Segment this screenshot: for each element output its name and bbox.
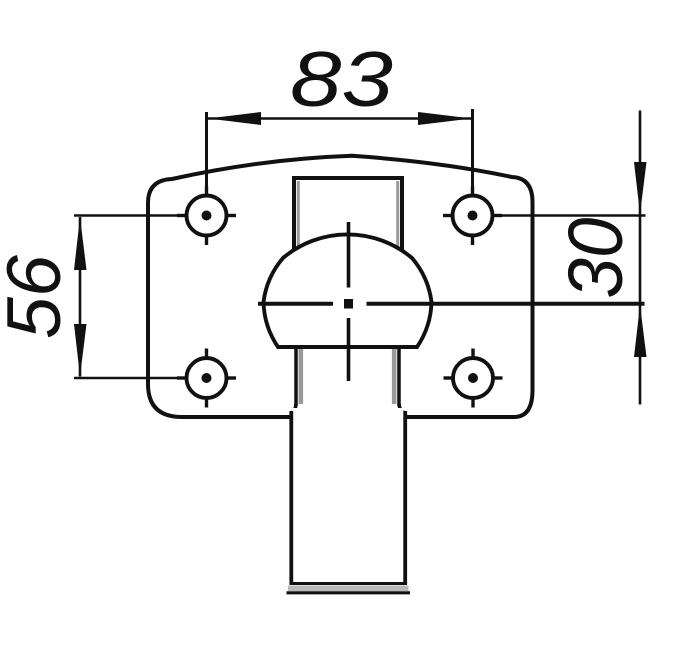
dimension 56 extension line top — [74, 214, 187, 217]
dimension 83 extension line left — [205, 112, 208, 196]
neck flare left — [292, 404, 297, 413]
svg-text:30: 30 — [553, 217, 639, 298]
mounting plate outline — [148, 156, 533, 417]
dimension 56 arrow up — [74, 217, 87, 270]
neck chamfer gray line right — [392, 349, 397, 404]
dimension 30 arrow down — [634, 162, 647, 214]
dimension 30 dimension line vertical — [639, 111, 642, 405]
dimension 30 arrow up — [634, 305, 647, 357]
shank lower left edge — [289, 411, 293, 584]
dimension 56 extension line bottom — [74, 377, 187, 380]
neck chamfer gray line left — [298, 349, 303, 404]
square shank upper part above ball — [294, 178, 402, 258]
dimension 30 extension line top — [493, 214, 646, 217]
shank lower part below plate — [292, 408, 404, 584]
shank upper chamfer line right — [396, 181, 399, 252]
dimension 83 arrow right — [418, 112, 472, 125]
dimension 83 dimension line — [208, 117, 471, 120]
shank bottom outer line — [287, 591, 411, 594]
svg-text:83: 83 — [290, 35, 393, 123]
ball centerline horizontal right segment (extends as 30 extension) — [367, 302, 645, 306]
bolt hole bottom-left — [177, 349, 236, 408]
ball centerline vertical upper segment — [347, 222, 351, 288]
bolt hole bottom-right — [444, 349, 503, 408]
shank bottom inner line — [290, 582, 408, 585]
bolt hole top-right — [443, 186, 502, 245]
shank upper chamfer line left — [297, 181, 300, 252]
svg-text:56: 56 — [0, 254, 77, 339]
dimension 83 extension line right — [471, 109, 474, 195]
ball centerline horizontal left segment — [258, 302, 333, 306]
bolt hole top-left — [177, 186, 236, 245]
neck flare right — [399, 404, 405, 413]
ball center dot — [344, 299, 353, 309]
dimension 56 arrow down — [74, 324, 87, 377]
ball centerline vertical lower segment — [347, 318, 351, 381]
shank bottom chamfer gray band — [288, 586, 409, 592]
tow ball — [264, 234, 432, 347]
neck below ball right edge — [397, 346, 401, 406]
neck below ball left edge — [294, 346, 298, 406]
shank lower right edge — [403, 411, 407, 584]
dimension 83 arrow left — [208, 112, 261, 125]
dimension 56 dimension line — [79, 217, 82, 377]
